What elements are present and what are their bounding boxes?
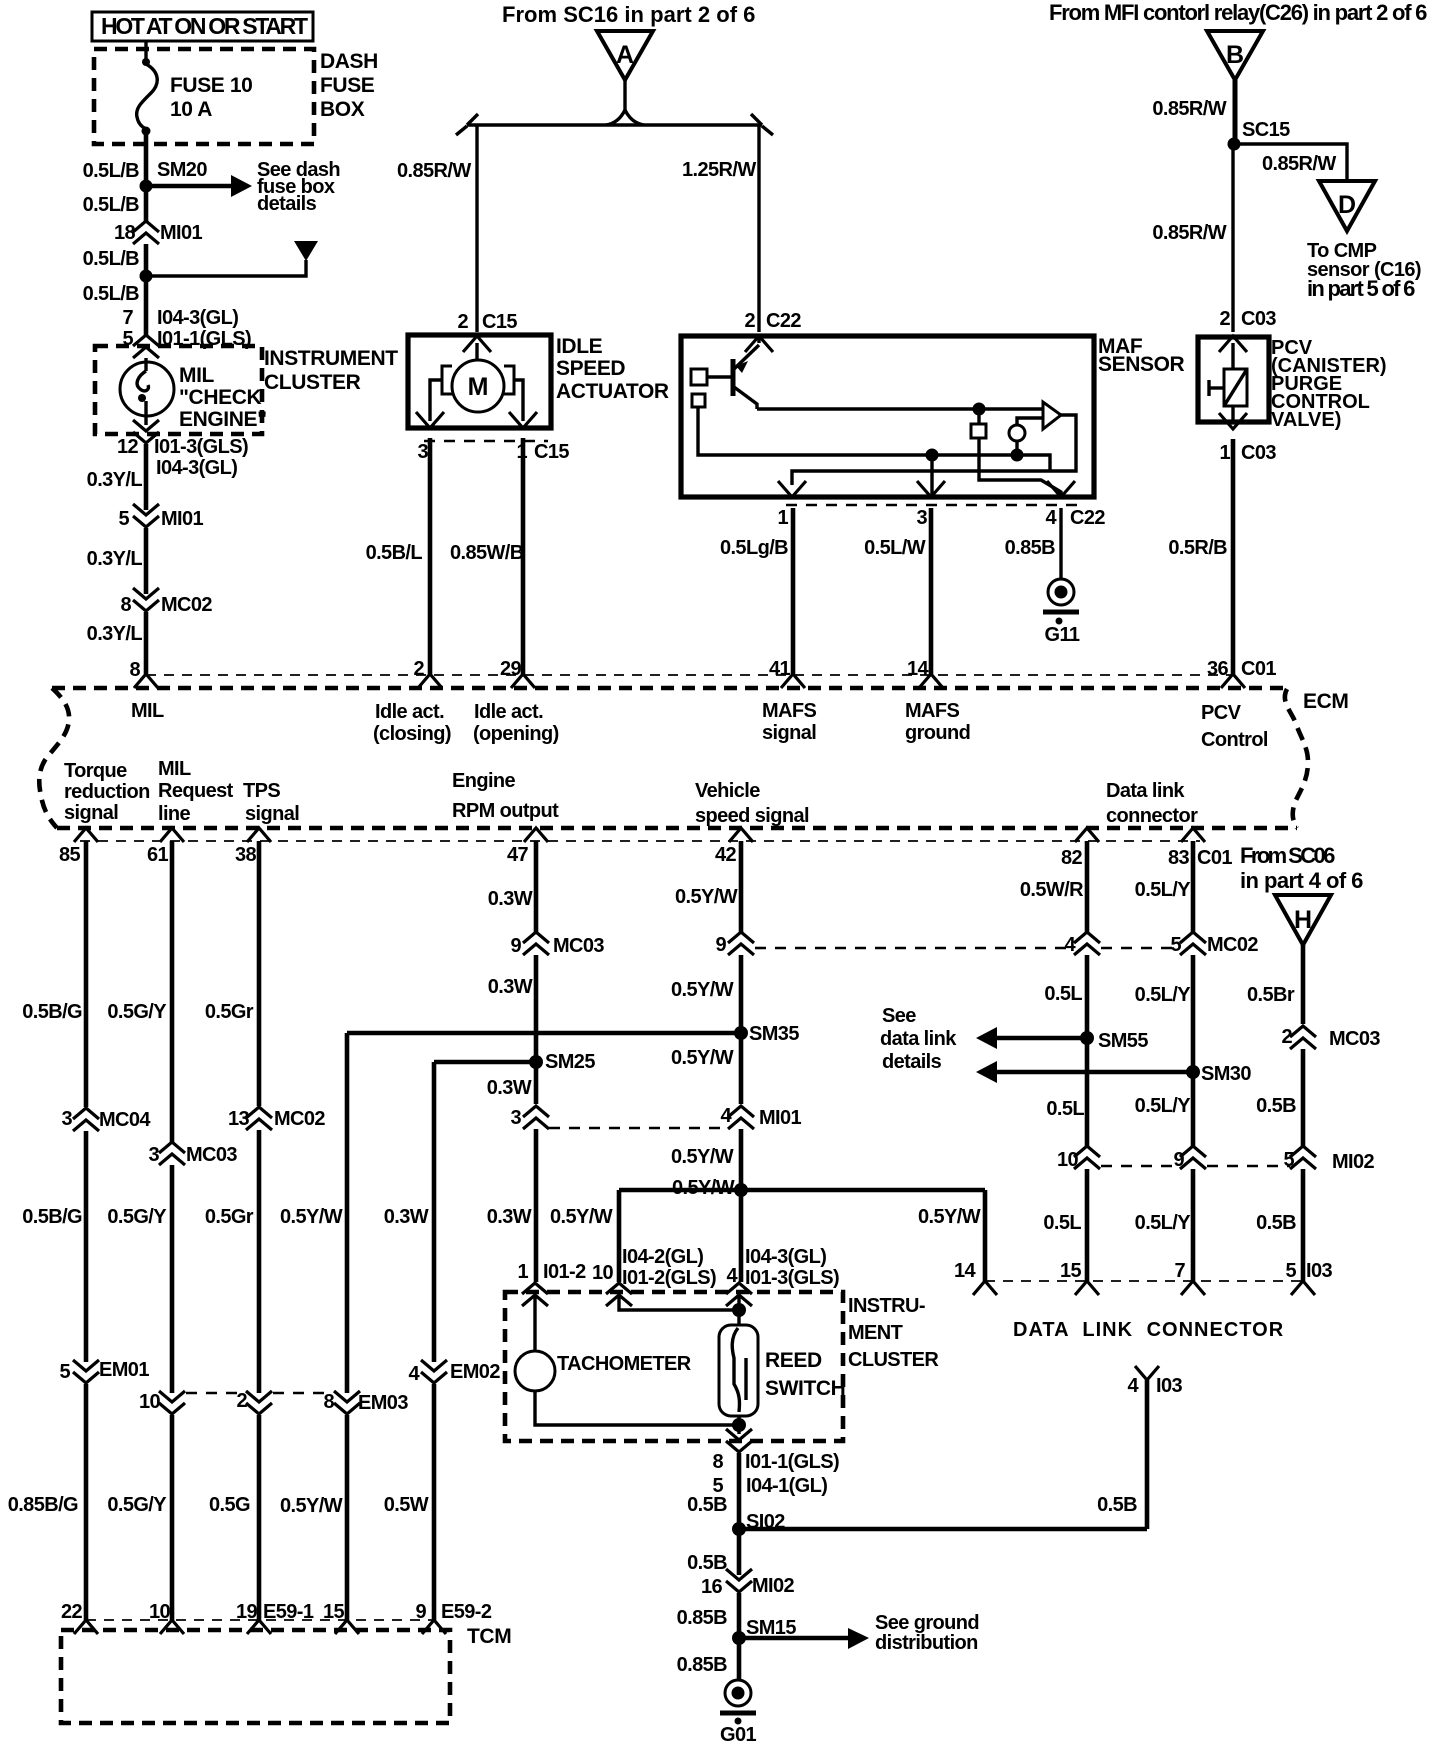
wire 0.5L/B MI01 to junction [144,244,149,276]
TCM pin 19 E59-1 [236,1601,314,1634]
svg-text:Vehicle: Vehicle [695,780,760,802]
svg-text:"CHECK: "CHECK [179,386,261,409]
svg-text:MI01: MI01 [161,508,204,530]
svg-text:in part 5 of 6: in part 5 of 6 [1307,276,1415,301]
connector 3 (MI01 row) [510,1106,549,1129]
arrow see data link details (SM30) [976,1061,1193,1083]
svg-text:DATA LINK CONNECTOR: DATA LINK CONNECTOR [1013,1319,1284,1341]
label PCV (CANISTER) PURGE CONTROL VALVE) [1271,337,1387,431]
svg-text:0.85W/B: 0.85W/B [450,542,524,564]
connector 2 (EM03 row) [236,1390,272,1414]
cluster exit pins 8 I01-1(GLS) 5 I04-1(GL) [712,1429,839,1497]
splice SC15 [1228,138,1241,151]
wire 0.5Y/W pin42 column (Vehicle speed) [739,841,744,932]
connector 9 MC03 [510,932,604,957]
ECM pin 41 [769,658,805,688]
svg-text:I01-2: I01-2 [543,1261,586,1283]
svg-text:H: H [1294,906,1312,934]
svg-text:I04-3(GL): I04-3(GL) [156,457,237,479]
arrow to ground distribution [739,1612,979,1654]
instrument cluster box (top, dashed) [95,346,262,434]
connector 4 (MC02 row) [1064,932,1100,956]
TCM pin 9 E59-2 [415,1601,491,1634]
svg-text:12: 12 [117,436,139,458]
svg-text:signal: signal [762,722,816,744]
svg-text:5: 5 [1170,934,1181,956]
svg-text:0.5Y/W: 0.5Y/W [675,886,738,908]
svg-text:0.5Y/W: 0.5Y/W [672,1177,735,1199]
svg-text:MIL: MIL [158,758,191,780]
wire 0.3Y/L to MC02 [144,528,149,594]
EM03 connector dashed links [186,1392,245,1395]
svg-text:0.85B: 0.85B [677,1607,728,1629]
pin 3 C15 [416,412,444,428]
svg-text:3: 3 [916,507,927,529]
ECM module dashed outline [39,688,1308,828]
svg-text:signal: signal [64,802,118,824]
svg-text:data link: data link [880,1028,957,1050]
MAF sensor box [681,336,1094,497]
svg-text:SPEED: SPEED [556,357,625,380]
svg-text:SENSOR: SENSOR [1098,353,1185,376]
pin 1 C03 [1219,413,1276,464]
svg-text:signal: signal [245,803,299,825]
motor M [442,343,514,412]
svg-text:Torque: Torque [64,760,127,782]
svg-text:INSTRUMENT: INSTRUMENT [264,347,398,370]
svg-text:connector: connector [1106,805,1198,827]
reed switch [719,1297,845,1416]
svg-text:See: See [882,1005,916,1027]
wire 0.85B SM15 to G01 [737,1638,742,1680]
wire 0.5W/R pin82 column [1085,841,1090,932]
connector 5 MI01 [118,504,203,530]
svg-text:0.5L/B: 0.5L/B [83,194,140,216]
connector 9 (MI02 row) [1173,1146,1206,1171]
splice SM55 [1080,1030,1148,1052]
svg-text:15: 15 [1060,1260,1082,1282]
lamp MIL CHECK ENGINE [120,358,267,431]
svg-text:8: 8 [712,1451,723,1473]
svg-text:MIL: MIL [179,364,215,387]
svg-text:I03: I03 [1156,1375,1182,1397]
svg-text:VALVE): VALVE) [1271,409,1341,431]
svg-text:4: 4 [720,1105,732,1127]
svg-text:7: 7 [1174,1260,1185,1282]
junction vehicle speed splice [734,1183,748,1197]
svg-text:I04-2(GL): I04-2(GL) [622,1246,703,1268]
wire 0.5G/Y pin61 column [170,841,175,1142]
svg-text:in part 4 of 6: in part 4 of 6 [1240,868,1363,893]
note To CMP sensor (C16) in part 5 of 6 [1307,240,1421,301]
svg-text:0.5L/B: 0.5L/B [83,160,140,182]
wire 0.85W/B to ECM pin 29 [521,438,526,674]
splice SM30 [1186,1063,1251,1085]
svg-text:MC03: MC03 [553,935,604,957]
cluster pin 1 I01-2 [517,1261,586,1306]
svg-text:0.3W: 0.3W [488,888,533,910]
svg-text:0.5Y/W: 0.5Y/W [671,1047,734,1069]
DLC pin 5 I03 [1285,1260,1332,1295]
wire 0.5L/B to instrument cluster [144,276,149,335]
svg-text:0.5B/L: 0.5B/L [366,542,423,564]
svg-text:13: 13 [228,1108,250,1130]
idle speed actuator box [408,335,551,428]
svg-text:(opening): (opening) [473,723,559,745]
svg-text:MC02: MC02 [1207,934,1258,956]
svg-text:RPM output: RPM output [452,800,559,822]
off-page triangle D [1319,181,1375,231]
svg-text:0.85B: 0.85B [677,1654,728,1676]
dash fuse box (dashed) [94,49,314,144]
svg-text:MC04: MC04 [99,1109,151,1131]
svg-text:0.5Y/W: 0.5Y/W [671,979,734,1001]
connector 4 MI01 [720,1105,801,1129]
svg-text:9: 9 [715,934,726,956]
ECM pin function labels top row [131,700,1268,751]
svg-text:C03: C03 [1241,308,1276,330]
svg-text:C01: C01 [1241,658,1276,680]
wire 0.5Y/W SM35 to MI01 [739,1033,744,1104]
ECM pin 8 [129,659,158,688]
svg-text:0.3Y/L: 0.3Y/L [87,548,143,570]
svg-text:E59-2: E59-2 [441,1601,492,1623]
power tag HOT AT ON OR START [92,12,313,41]
ECM pin 29 [500,658,535,688]
svg-text:14: 14 [907,658,930,680]
wire 0.5L/Y to DLC pin 7 [1191,1169,1196,1281]
splice SM25 with branch [434,1051,595,1073]
off-page triangle A [597,31,653,80]
svg-text:0.5Gr: 0.5Gr [205,1206,254,1228]
svg-text:0.5L/Y: 0.5L/Y [1135,984,1192,1006]
note See data link details [880,1005,957,1073]
svg-text:5: 5 [118,508,129,530]
ECM pin function labels bottom row [64,758,1198,827]
svg-text:5: 5 [1283,1149,1294,1171]
arrow see data link details (SM55) [976,1027,1087,1049]
svg-text:9: 9 [510,935,521,957]
svg-text:SC15: SC15 [1242,119,1290,141]
svg-text:G01: G01 [720,1724,756,1746]
svg-text:SM30: SM30 [1201,1063,1251,1085]
svg-text:2: 2 [1281,1026,1292,1048]
wire 0.3Y/L to MI01 [144,444,149,510]
wire 0.5G/Y MC03 to EM03 row [170,1165,175,1393]
svg-text:IDLE: IDLE [556,335,603,358]
splice SM35 with branch [347,1023,799,1045]
svg-text:MENT: MENT [848,1322,903,1344]
svg-text:3: 3 [510,1107,521,1129]
label MAF SENSOR [1098,335,1185,376]
cluster pin 10 I04-2(GL) I01-2(GLS) [592,1246,716,1306]
svg-text:0.5B/G: 0.5B/G [22,1001,82,1023]
junction above reed switch [732,1303,746,1317]
branch wire 0.85R/W to triangle D [1234,144,1347,181]
svg-text:38: 38 [235,844,257,866]
wire 0.5Y/W to cluster pin 4 [739,1190,744,1282]
svg-text:0.5Y/W: 0.5Y/W [280,1495,343,1517]
svg-text:CLUSTER: CLUSTER [264,371,361,394]
svg-text:G11: G11 [1045,624,1080,646]
connector 3 MC04 [61,1108,151,1131]
svg-text:0.5L: 0.5L [1046,1098,1084,1120]
svg-text:0.3W: 0.3W [384,1206,429,1228]
svg-text:details: details [882,1051,942,1073]
svg-text:FUSE: FUSE [320,74,375,97]
splice SM20 [140,180,153,193]
ECM pin 2 [413,658,442,688]
svg-text:TPS: TPS [243,780,280,802]
svg-text:5: 5 [59,1361,70,1383]
svg-text:0.5G: 0.5G [209,1494,250,1516]
svg-text:FUSE 10: FUSE 10 [170,74,252,97]
wire 0.3Y/L to ECM pin 8 [144,612,149,674]
svg-text:reduction: reduction [64,781,150,803]
wire 0.3W MC03 to SM25 [534,955,539,1062]
svg-text:10: 10 [139,1391,161,1413]
wire 0.5Br H to MC03 [1301,945,1306,1024]
svg-text:0.5Y/W: 0.5Y/W [550,1206,613,1228]
TCM pin 15 [323,1601,359,1634]
cluster internal wire pin10 to reed junction [619,1297,739,1310]
pin 2 C03 [1219,308,1276,352]
connector 3 MC03 [148,1142,237,1166]
wire 0.85R/W SC15 to PCV [1231,144,1234,332]
svg-text:EM02: EM02 [450,1361,500,1383]
wire 0.5B cluster to SI02 [737,1453,742,1529]
pins 7 I04-3(GL) / 5 I01-1(GLS) [122,307,251,358]
svg-text:29: 29 [500,658,522,680]
svg-text:A: A [616,41,634,69]
svg-text:ENGINE": ENGINE" [179,408,267,431]
MAF internal transistor [691,336,759,409]
svg-text:0.5Y/W: 0.5Y/W [671,1146,734,1168]
svg-text:MIL: MIL [131,700,164,722]
wire 0.5L/Y to SM30 [1191,955,1196,1146]
svg-text:details: details [257,193,317,215]
MI02 row dashed links [1101,1165,1178,1168]
ECM bottom pins 85 61 38 47 42 82 83 C01 [59,828,1232,869]
svg-text:0.85R/W: 0.85R/W [1262,153,1336,175]
wire 0.5L to SM55 [1085,955,1090,1146]
svg-text:0.5B: 0.5B [687,1552,727,1574]
off-page triangle B [1207,31,1263,80]
DLC connector line [985,1280,1303,1282]
svg-text:C03: C03 [1241,442,1276,464]
svg-text:MI02: MI02 [752,1575,795,1597]
TCM pin 22 [61,1601,98,1634]
svg-text:BOX: BOX [320,98,365,121]
svg-text:47: 47 [507,844,529,866]
connector line C15 [424,440,548,443]
svg-text:0.5W/R: 0.5W/R [1020,879,1084,901]
svg-text:C22: C22 [1070,507,1105,529]
wire 0.5Y/W MI01 to junction [739,1129,744,1190]
pin 1 C15 [509,412,537,428]
svg-text:1: 1 [517,1261,528,1283]
wire 0.5Gr pin38 column [257,841,262,1106]
pin 2 C22 [744,310,801,352]
cluster pin 4 I04-3(GL) I01-3(GLS) [726,1246,839,1306]
svg-text:0.5G/Y: 0.5G/Y [107,1494,167,1516]
svg-text:61: 61 [147,844,169,866]
svg-text:From SC16 in part 2 of 6: From SC16 in part 2 of 6 [502,2,755,27]
svg-text:8: 8 [129,659,140,681]
svg-text:0.85R/W: 0.85R/W [397,160,471,182]
connector 4 EM02 [408,1360,500,1385]
svg-text:4: 4 [1127,1375,1139,1397]
svg-text:speed signal: speed signal [695,805,809,827]
connector 18 MI01 [114,221,203,244]
svg-text:42: 42 [715,844,737,866]
svg-text:MI01: MI01 [160,222,203,244]
svg-text:CLUSTER: CLUSTER [848,1349,939,1371]
svg-text:0.5B: 0.5B [1256,1212,1296,1234]
svg-text:Idle act.: Idle act. [474,701,543,723]
MAF internal wiring [698,403,1061,498]
connector line C22 [786,504,1080,507]
svg-text:0.5B: 0.5B [1256,1095,1296,1117]
ground G11 [1043,579,1080,646]
wire 0.5W to TCM pin 9 [432,1384,437,1620]
junction below reed switch [732,1418,746,1432]
svg-text:0.5G/Y: 0.5G/Y [107,1001,167,1023]
svg-text:I01-3(GLS): I01-3(GLS) [154,436,248,458]
label DASH FUSE BOX [320,50,378,121]
svg-text:0.85R/W: 0.85R/W [1152,222,1226,244]
svg-text:ECM: ECM [1303,690,1348,713]
svg-text:See ground: See ground [875,1612,979,1634]
svg-text:4: 4 [1064,934,1076,956]
svg-text:0.5L/B: 0.5L/B [83,283,140,305]
off-page solid triangle [294,241,318,261]
connector 16 MI02 [701,1569,795,1598]
svg-text:D: D [1338,191,1356,219]
svg-text:0.5Br: 0.5Br [1247,984,1295,1006]
wire 0.5B SI02 to MI02 [737,1529,742,1575]
TCM box dashed [61,1630,450,1723]
svg-text:Engine: Engine [452,770,516,792]
svg-text:0.5L/Y: 0.5L/Y [1135,1212,1192,1234]
connector 10 (EM03 row) [139,1391,185,1414]
svg-text:4: 4 [1045,507,1057,529]
connector 5 MI02 [1283,1146,1374,1173]
wire 0.3W branch from SM25 [432,1062,437,1362]
svg-text:0.5R/B: 0.5R/B [1168,537,1227,559]
wire 1.25R/W bus to MAF [757,125,760,332]
wire 0.85B MI02 to SM15 [737,1593,742,1638]
svg-text:Request: Request [158,780,234,802]
svg-text:0.5B: 0.5B [687,1494,727,1516]
wire from HOT box to fuse [144,41,147,62]
svg-text:0.3W: 0.3W [487,1077,532,1099]
wire 0.85R/W bus to idle actuator [475,125,478,332]
svg-text:1: 1 [1219,442,1230,464]
svg-text:I04-3(GL): I04-3(GL) [157,307,238,329]
arrow to dash fuse box details [150,159,340,215]
wire 0.5B MC03 to MI02 [1301,1049,1306,1146]
svg-text:0.5L/B: 0.5L/B [83,248,140,270]
svg-text:Idle act.: Idle act. [375,701,444,723]
svg-text:16: 16 [701,1576,723,1598]
off-page triangle H [1275,895,1331,945]
wire 0.5L to DLC pin 15 [1085,1169,1090,1281]
connector 2 MC03 [1281,1026,1380,1050]
svg-text:TACHOMETER: TACHOMETER [557,1353,692,1375]
svg-text:REED: REED [765,1349,822,1372]
svg-text:0.5W: 0.5W [384,1494,429,1516]
svg-text:0.5Gr: 0.5Gr [205,1001,254,1023]
svg-text:MAFS: MAFS [762,700,817,722]
svg-text:0.5L/W: 0.5L/W [864,537,926,559]
svg-text:From MFI contorl relay(C26) in: From MFI contorl relay(C26) in part 2 of… [1049,0,1427,25]
svg-text:36: 36 [1207,658,1229,680]
svg-text:ACTUATOR: ACTUATOR [556,380,669,403]
label INSTRUMENT CLUSTER [264,347,398,394]
svg-text:0.5L: 0.5L [1043,1212,1081,1234]
svg-text:2: 2 [744,310,755,332]
ECM pin 14 [907,658,943,688]
svg-text:Control: Control [1201,729,1268,751]
wire 0.5G/Y to TCM pin 10 [170,1415,175,1620]
note From SC06 in part 4 of 6 [1240,843,1363,893]
svg-text:0.85B/G: 0.85B/G [8,1494,78,1516]
svg-text:ground: ground [905,722,970,744]
connector 13 MC02 [228,1107,325,1130]
TCM pin 10 [149,1601,184,1634]
connector 8 EM03 [323,1391,408,1414]
svg-text:0.5B: 0.5B [1097,1494,1137,1516]
svg-text:3: 3 [148,1144,159,1166]
svg-text:9: 9 [1173,1149,1184,1171]
ground G01 [720,1680,756,1746]
splice SI02 with branch to DLC pin 4 [732,1380,1147,1536]
wire 0.5B/G MC04 to EM01 [84,1131,89,1362]
svg-text:INSTRU-: INSTRU- [848,1295,925,1317]
svg-text:(closing): (closing) [373,723,451,745]
motor wires to pins [430,380,442,421]
branch wire 0.5Y/W to DLC pin 14 [741,1190,985,1281]
svg-text:1: 1 [777,507,788,529]
junction with branch to off-page triangle [140,270,153,283]
branch wire 0.5Y/W to cluster pin 10 [619,1190,741,1282]
svg-text:I04-3(GL): I04-3(GL) [745,1246,826,1268]
wire 0.3W to cluster pin 1 [534,1129,539,1282]
svg-text:SM55: SM55 [1098,1030,1148,1052]
wire 0.3W SM25 to connector 3 [534,1062,539,1104]
wire 0.5B/G pin85 column [84,841,89,1107]
wire 0.5L/W to ECM pin 14 [929,508,934,674]
svg-text:8: 8 [323,1391,334,1413]
svg-text:0.85B: 0.85B [1005,537,1056,559]
svg-text:C15: C15 [482,311,517,333]
svg-text:0.5Y/W: 0.5Y/W [280,1206,343,1228]
svg-text:0.85R/W: 0.85R/W [1152,98,1226,120]
svg-text:2: 2 [413,658,424,680]
svg-text:5: 5 [1285,1260,1296,1282]
label INSTRU-MENT CLUSTER [848,1295,939,1371]
svg-text:1.25R/W: 1.25R/W [682,159,756,181]
wire 0.5B/L to ECM pin 2 [428,438,433,674]
wire 0.3W pin47 column (Engine RPM) [534,841,539,932]
connector 8 MC02 [120,588,212,616]
wire 0.5L/Y pin83 column [1191,841,1196,932]
svg-text:14: 14 [954,1260,977,1282]
svg-text:PCV: PCV [1201,702,1242,724]
svg-text:18: 18 [114,222,136,244]
svg-text:0.5Y/W: 0.5Y/W [918,1206,981,1228]
